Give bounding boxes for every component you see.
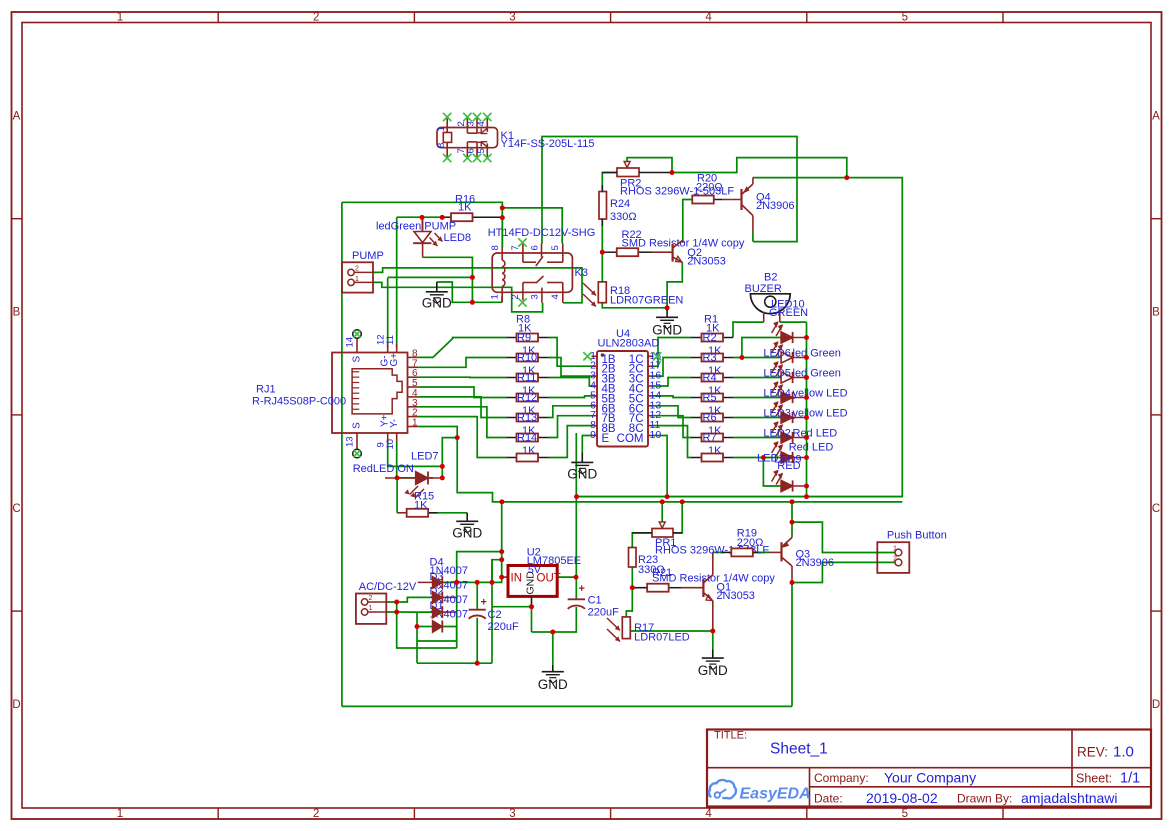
svg-text:RedLED ON: RedLED ON [353,463,414,475]
svg-text:RJ1: RJ1 [256,384,276,396]
ground under U4 [571,461,593,463]
svg-text:1K: 1K [414,500,428,512]
connector Push Button [877,542,909,573]
svg-text:REV:: REV: [1077,745,1108,760]
wire U4 pin17 to resistor [654,338,692,367]
wire rail B drop to U2 IN [442,502,501,583]
svg-text:Your Company: Your Company [884,770,976,786]
wire D1 cathode hook [417,627,457,642]
potentiometer PR2 [602,162,672,177]
svg-text:R14: R14 [517,432,537,444]
svg-text:S: S [352,422,363,429]
wire LED8 cathode [423,257,473,302]
wire R2 to buzzer [733,322,764,337]
svg-text:2: 2 [510,294,521,299]
wire bridge bottom [417,662,492,664]
svg-text:R12: R12 [517,392,537,404]
wire R11 to U4 pin5 [549,396,592,398]
wire PR1 wiper [661,502,663,522]
transistor Q3 2N3906 [770,536,792,566]
wire Q2 emitter to GND [667,262,682,308]
svg-text:330Ω: 330Ω [610,211,637,223]
wire anode LED1 [733,457,781,459]
svg-text:1: 1 [490,294,501,299]
wire PUMP pin1 to K3 pin3 [373,282,543,312]
svg-text:IN: IN [511,573,523,585]
svg-text:1/1: 1/1 [1120,771,1140,787]
svg-text:220Ω: 220Ω [737,537,764,549]
transistor Q1 2N3053 [682,575,713,601]
U4 no-connect pin1 [583,352,591,360]
junction dots [394,170,849,666]
LED row labels [757,348,848,473]
svg-text:A: A [1152,111,1160,123]
svg-text:R2: R2 [703,332,717,344]
wire RJ45 pin2 to ladder [418,417,506,458]
svg-text:D: D [1152,699,1160,711]
svg-text:G+: G+ [389,353,400,367]
wire U4 pin13 to resistor [654,406,692,418]
LED LED5 [772,361,807,383]
wire R19 right to Q3 base [752,551,770,553]
wire bridge upper loop right [492,560,502,583]
wire AC pin2 lower route [397,602,457,648]
svg-text:2: 2 [313,12,319,24]
svg-text:led Green: led Green [793,348,841,360]
wire C1 top lead [575,577,577,599]
wire PR2 wiper loop [627,158,672,173]
diode D3 anode stub [418,581,433,583]
wire U4 pin16 to resistor [654,358,692,377]
svg-text:GND: GND [567,467,597,482]
wire Q3 emitter net [791,502,793,536]
U4 no-connect pin18 [653,352,661,360]
wire Q1 collector to R19 [713,552,726,574]
svg-text:220uF: 220uF [588,607,619,619]
wire bridge V2 column [491,560,493,664]
svg-text:4: 4 [705,808,712,820]
svg-text:HT14FD-DC12V-SHG: HT14FD-DC12V-SHG [488,227,596,239]
resistor R15 [407,509,438,517]
ground R15 [456,520,478,522]
wire U4 pin15 to resistor [654,378,692,387]
svg-text:LED8: LED8 [444,232,472,244]
svg-text:Date:: Date: [814,792,843,806]
wire PR1 left to R23 [632,533,652,548]
svg-text:LED3: LED3 [763,408,791,420]
svg-text:14: 14 [345,337,356,348]
LED LED9 [772,470,807,492]
wire K3 pin5 feed [502,208,562,244]
svg-text:220uF: 220uF [488,621,519,633]
RJ45 shield no-connect bottom [353,449,362,458]
wire RJ45 pin3 to ladder [418,407,506,438]
wire RJ45 pin7 to ladder [418,358,506,368]
svg-text:R4: R4 [703,372,717,384]
svg-text:LDR07GREEN: LDR07GREEN [610,295,683,307]
frame row letters [12,111,1160,712]
wire PUMP pin2 to K3 pin4 [373,268,582,303]
wire G- RJ45 pin12 [388,276,473,278]
LED LED3 [772,401,807,423]
wire Q1 emitter [712,601,714,631]
svg-text:9: 9 [590,429,596,441]
svg-text:3: 3 [509,808,515,820]
wire R23 node to R17 [626,588,632,617]
wire anode LED6 [733,357,781,359]
svg-text:5: 5 [476,148,487,153]
wire AC pin2 to D3 anode [386,597,432,602]
svg-text:GREEN: GREEN [769,307,808,319]
svg-text:COM: COM [617,433,644,445]
svg-text:1: 1 [412,418,418,429]
svg-text:+: + [579,583,585,595]
svg-text:ULN2803AD: ULN2803AD [598,338,660,350]
svg-text:Red LED: Red LED [793,428,838,440]
svg-text:Push Button: Push Button [887,530,947,542]
wire R15 left lead [397,512,406,514]
connector AC/DC-12V [356,594,386,624]
wire D1 anode [417,626,432,628]
wire 5V rail A [577,496,903,498]
wire LED7 net [388,438,458,513]
svg-text:2N3906: 2N3906 [796,557,835,569]
svg-text:13: 13 [345,436,356,447]
svg-text:10: 10 [650,429,662,441]
wire bridge V4 column [416,612,418,663]
wire R16 left [397,216,441,218]
svg-text:C: C [1152,503,1160,515]
transistor Q4 2N3906 [722,178,753,242]
svg-text:3: 3 [509,12,515,24]
wire R13 to U4 pin7 [549,416,592,438]
svg-text:amjadalshtnawi: amjadalshtnawi [1021,790,1118,806]
wire U2 GND pin [531,596,533,632]
resistor R24 [599,185,607,226]
diode D2 1N4007 [432,606,442,618]
svg-text:K3: K3 [575,267,588,279]
svg-text:led Green: led Green [793,368,841,380]
svg-text:4: 4 [550,294,561,299]
wire K1 net to Q4 collector [542,137,797,244]
svg-text:B2: B2 [764,272,777,284]
wire C1 bottom lead [532,607,577,632]
svg-text:SMD Resistor 1/4W copy: SMD Resistor 1/4W copy [622,238,745,250]
svg-text:C2: C2 [488,609,502,621]
svg-text:5: 5 [902,808,908,820]
wire R12 to U4 pin6 [549,406,592,418]
svg-text:R24: R24 [610,198,630,210]
wire PR2 right to 12V net [672,158,847,178]
svg-text:2: 2 [369,595,373,602]
svg-text:GND: GND [452,526,482,541]
wire C2 top [476,582,478,609]
resistor ladder R8-R14 [507,314,549,462]
svg-text:2019-08-02: 2019-08-02 [866,790,938,806]
wire D2 cathode stub [442,611,456,613]
relay K3 HT14FD [492,244,572,303]
svg-text:11: 11 [385,335,396,345]
svg-text:BUZER: BUZER [745,283,782,295]
ground Q1 [702,657,724,659]
svg-text:ledGreen PUMP: ledGreen PUMP [376,221,456,233]
LED LED10 [772,321,807,343]
resistor R19 [722,548,758,556]
wire RJ45 pin6 to ladder [418,376,506,378]
K3 no-connect marks [518,238,526,246]
wire R9 to U4 pin3 [549,358,592,377]
wire C2 bottom [476,618,478,664]
wire D3 cathode stub [442,596,456,598]
wire GND stem U2 [552,632,554,672]
wire R17 bottom to Q1 emitter [626,631,713,639]
svg-text:6: 6 [529,245,540,250]
diode D4 1N4007 [432,576,442,588]
wire R14 to U4 pin8 [549,426,592,458]
regulator U2 LM7805EE [508,564,561,596]
svg-text:Y-: Y- [389,419,400,428]
ground PUMP area [426,291,448,293]
wire U2 OUT to C1 [557,576,576,578]
svg-text:Company:: Company: [814,771,869,785]
LED LED1 [772,441,807,463]
svg-text:AC/DC-12V: AC/DC-12V [359,581,417,593]
K1 no-connect marks [443,113,492,162]
svg-text:EasyEDA: EasyEDA [740,786,811,803]
wire U4 pin9 E to GND [582,436,591,463]
svg-text:SMD Resistor 1/4W copy: SMD Resistor 1/4W copy [652,573,775,585]
wire R18 bottom to GND node [602,303,667,318]
svg-text:B: B [13,307,21,319]
wire LED9 anode [763,458,781,487]
wire Q1 GND stem [712,631,714,658]
svg-text:GND: GND [538,677,568,692]
K3 pin numbers [490,245,562,299]
svg-text:Y14F-SS-205L-115: Y14F-SS-205L-115 [501,138,595,150]
svg-text:R9: R9 [517,332,531,344]
svg-text:1: 1 [893,546,897,553]
svg-text:R-RJ45S08P-C000: R-RJ45S08P-C000 [252,396,346,408]
wire LED8 anode [422,217,424,230]
wire R8 to U4 pin2 [549,338,592,367]
wire PR2 left to R24 [602,173,617,192]
LED LED2 [772,421,807,443]
diode D1 1N4007 [432,621,442,633]
svg-text:B: B [1152,307,1160,319]
resistor R20 [692,196,722,204]
svg-text:7: 7 [510,245,521,250]
wire R15 to GND [429,513,467,522]
transistor Q2 2N3053 [653,241,683,263]
svg-text:1.0: 1.0 [1113,744,1134,761]
svg-text:LM7805EE: LM7805EE [527,555,581,567]
LDR R18 [583,282,606,307]
svg-text:LED4: LED4 [763,388,791,400]
wire R16 right to node [501,208,503,248]
wire anode LED5 [733,377,781,379]
connector RJ1 RJ45 [332,339,418,450]
svg-text:2: 2 [355,266,359,273]
wire G+ RJ45 pin11 [396,217,398,348]
wire Q3 to push button pin1 [792,522,895,552]
wire top-left loop net [342,202,792,706]
svg-text:1: 1 [355,276,359,283]
wire Q3 collector to push button pin2 [792,562,895,582]
svg-text:R5: R5 [703,392,717,404]
wire V2 to U2 GND [492,606,532,608]
wire U4 COM to 5V rail [654,436,668,497]
frame column numbers [117,12,908,821]
potentiometer PR1 [632,522,682,537]
svg-text:5: 5 [550,245,561,250]
svg-text:LED7: LED7 [411,451,439,463]
svg-text:GND: GND [422,296,452,311]
svg-text:C1: C1 [588,595,602,607]
svg-text:1: 1 [117,12,123,24]
svg-text:S: S [352,356,363,363]
svg-text:5: 5 [902,12,908,24]
svg-text:R10: R10 [517,352,537,364]
svg-text:Sheet_1: Sheet_1 [770,741,828,758]
resistor R16 [441,213,503,221]
resistor R23 [629,548,637,568]
svg-text:2: 2 [893,556,897,563]
ground U2 [542,671,564,673]
svg-text:2: 2 [313,808,319,820]
wire anode LED3 [733,417,781,419]
diode D3 1N4007 [432,591,442,603]
wire R10 to U4 pin4 [549,378,592,387]
svg-text:4: 4 [476,121,487,126]
K1 pin numbers [436,121,487,153]
wire U4 pin12 to resistor [654,416,692,438]
svg-text:E: E [602,433,610,445]
wire R21 node [632,587,647,589]
LED7 [385,472,442,498]
svg-text:LED6: LED6 [763,348,791,360]
svg-text:2N3053: 2N3053 [716,590,755,602]
svg-text:A: A [13,111,21,123]
resistor ladder R1-R7 [691,314,733,462]
svg-text:R13: R13 [517,412,537,424]
svg-text:+: + [481,597,487,609]
title block [707,730,1151,807]
svg-text:Red LED: Red LED [789,442,834,454]
svg-text:GND: GND [698,663,728,678]
wire AC pin1 to D2 anode [386,611,432,613]
svg-text:R7: R7 [703,432,717,444]
wire RJ45 pin1 to rail [418,427,902,502]
svg-text:1: 1 [117,808,123,820]
svg-text:Sheet:: Sheet: [1076,772,1112,786]
svg-text:D: D [12,699,20,711]
wire PR1 right [673,502,682,533]
wire 12V rail right side [577,178,903,497]
svg-text:LED2: LED2 [763,428,791,440]
capacitor C1 [568,583,585,609]
svg-text:2N3906: 2N3906 [756,200,795,212]
svg-text:8: 8 [490,245,501,250]
svg-text:GND: GND [652,323,682,338]
svg-text:220Ω: 220Ω [696,182,723,194]
ground Q2 area [656,316,678,318]
wire R23 bottom [631,567,633,588]
svg-text:3: 3 [529,294,540,299]
svg-text:LDR07LED: LDR07LED [634,632,690,644]
wire RJ45 pin8 to R8 [418,338,506,358]
LED LED6 [772,341,807,363]
wire R20 left to Q2 collector [683,200,693,243]
wire K3 pin8 coil top [501,218,503,248]
LDR R17 [607,617,630,642]
RJ45 pin name labels [345,334,401,449]
svg-text:yellow LED: yellow LED [793,388,848,400]
wire RJ45 pin4 to ladder [418,397,506,418]
svg-text:R3: R3 [703,352,717,364]
RJ45 shield no-connect top [353,330,362,339]
connector PUMP [342,262,373,292]
buzzer B2 [750,294,790,322]
svg-text:Drawn By:: Drawn By: [957,792,1012,806]
svg-text:PUMP: PUMP [352,250,384,262]
resistor R22 [602,248,652,256]
wire anode LED4 [733,397,781,399]
svg-text:LED5: LED5 [763,368,791,380]
diode labels D4-D1 [430,557,469,621]
svg-text:R6: R6 [703,412,717,424]
svg-text:1K: 1K [458,202,472,214]
wire GND net PUMP area [437,282,502,302]
capacitor C2 [469,597,487,619]
wire bridge V1 column [456,582,458,648]
wire bridge upper loop left [457,552,502,583]
wire RJ45 pin5 to ladder [418,387,506,398]
svg-text:8: 8 [436,143,447,148]
svg-text:yellow LED: yellow LED [793,408,848,420]
wire R24 to R22 node [601,219,603,282]
EasyEDA logo [709,780,811,803]
wire U4 pin14 to resistor [654,396,692,398]
wire anode LED2 [733,437,781,439]
svg-text:1: 1 [436,126,447,131]
svg-text:TITLE:: TITLE: [714,730,747,742]
svg-text:2N3053: 2N3053 [687,256,726,268]
svg-text:R11: R11 [517,372,536,384]
svg-text:10: 10 [385,439,396,450]
relay K1 [437,117,498,158]
wire U2 IN lead [502,576,508,578]
wire U2 OUT riser [575,433,577,577]
resistor R21 [647,584,682,592]
wire LED cathode rail [806,322,808,497]
wire U4 pin11 to resistor [654,426,692,458]
svg-text:1: 1 [369,605,373,612]
svg-text:4: 4 [705,12,712,24]
svg-text:RED: RED [777,460,800,472]
wire buzzer to cathode rail [780,321,807,323]
LED8 ledGreen PUMP [413,217,442,257]
svg-text:C: C [12,503,20,515]
IC U4 ULN2803AD [590,350,661,447]
wire K3 pin1 coil bottom [501,296,503,302]
wire LED10 anode [742,338,781,358]
LED LED4 [772,381,807,403]
